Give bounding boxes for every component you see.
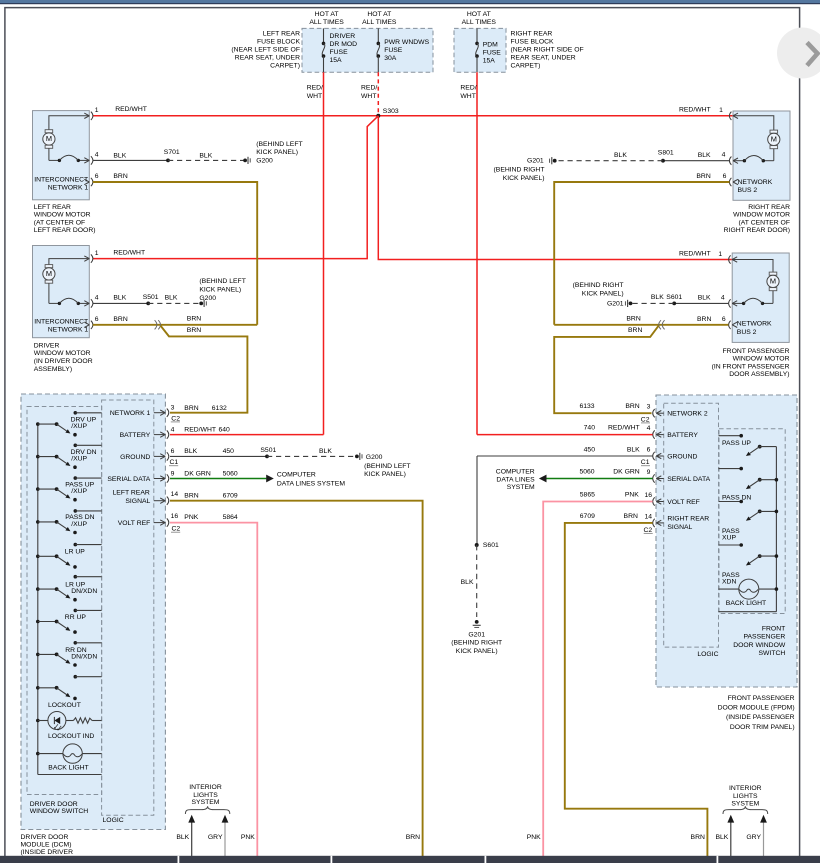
bottom page bar	[0, 856, 820, 863]
svg-text:S601: S601	[666, 294, 682, 301]
svg-text:KICK PANEL): KICK PANEL)	[503, 175, 545, 182]
svg-text:BLK: BLK	[199, 152, 212, 159]
svg-text:3: 3	[647, 404, 651, 411]
svg-text:GROUND: GROUND	[667, 453, 697, 460]
svg-text:BRN: BRN	[625, 403, 639, 410]
svg-text:SERIAL DATA: SERIAL DATA	[667, 476, 710, 483]
svg-text:CARPET): CARPET)	[270, 63, 300, 70]
svg-text:PNK: PNK	[184, 514, 198, 521]
svg-text:NETWORK 1: NETWORK 1	[48, 326, 89, 333]
ground G201 (front passenger motor)	[629, 302, 633, 306]
splice S701	[166, 159, 170, 163]
ground G201 (right rear motor)	[553, 159, 557, 163]
svg-text:C2: C2	[172, 526, 181, 533]
svg-text:WHT: WHT	[361, 93, 376, 100]
svg-text:(BEHIND RIGHT: (BEHIND RIGHT	[451, 640, 502, 647]
svg-text:RIGHT REAR: RIGHT REAR	[748, 204, 790, 211]
motor M right rear	[733, 116, 774, 130]
motor M left rear	[49, 116, 89, 130]
wire GRY to interior lights (right)	[763, 821, 765, 857]
pin 6 right rear motor	[733, 179, 738, 182]
svg-text:BLK: BLK	[165, 294, 178, 301]
svg-text:(INSIDE DRIVER: (INSIDE DRIVER	[21, 849, 74, 856]
svg-text:BLK: BLK	[614, 152, 627, 159]
svg-text:BLK: BLK	[176, 834, 189, 841]
lockout indicator lamp	[36, 719, 40, 723]
fuse F2 PWR WNDWS FUSE 30A	[377, 28, 379, 43]
pin 6 left rear motor	[84, 179, 89, 182]
svg-text:KICK PANEL): KICK PANEL)	[256, 149, 298, 156]
ground G200 (DDM)	[355, 455, 359, 459]
svg-text:450: 450	[223, 448, 235, 455]
svg-text:HOT AT: HOT AT	[315, 11, 339, 18]
svg-text:COMPUTER: COMPUTER	[277, 472, 316, 479]
svg-text:RED/: RED/	[361, 85, 377, 92]
svg-text:RED/WHT: RED/WHT	[113, 250, 145, 257]
svg-text:BLK: BLK	[698, 294, 711, 301]
wire PNK 5864 DDM volt ref	[170, 523, 257, 856]
svg-text:DRIVER: DRIVER	[330, 33, 356, 40]
DDM pin 9 connector	[154, 478, 165, 480]
ground G200 (left rear motor)	[243, 159, 247, 163]
svg-text:BLK: BLK	[651, 294, 664, 301]
pin 1 left rear motor	[84, 113, 89, 116]
svg-text:REAR SEAT, UNDER: REAR SEAT, UNDER	[511, 55, 576, 62]
wire BRN right rear motor pin6 down to passenger splice	[554, 182, 729, 325]
svg-text:15A: 15A	[483, 57, 496, 64]
svg-text:DR MOD: DR MOD	[330, 41, 358, 48]
svg-text:PNK: PNK	[241, 834, 255, 841]
svg-text:LOGIC: LOGIC	[697, 651, 718, 658]
wire BLK right rear motor pin4 to S801	[663, 160, 730, 162]
svg-text:M: M	[46, 134, 52, 143]
svg-text:PASSENGER: PASSENGER	[743, 634, 785, 641]
wire BLK dashed S801 to G201	[559, 160, 664, 162]
svg-text:M: M	[46, 269, 52, 278]
svg-text:WINDOW MOTOR: WINDOW MOTOR	[34, 212, 91, 219]
svg-text:(AT CENTER OF: (AT CENTER OF	[34, 219, 85, 226]
switch PASS UP (FPDM row 1)	[719, 435, 742, 437]
svg-text:BATTERY: BATTERY	[120, 432, 151, 439]
svg-text:(AT CENTER OF: (AT CENTER OF	[739, 219, 790, 226]
svg-text:GRY: GRY	[208, 834, 223, 841]
svg-text:G201: G201	[527, 158, 544, 165]
svg-text:INTERCONNECT: INTERCONNECT	[34, 319, 88, 326]
svg-text:LEFT REAR DOOR): LEFT REAR DOOR)	[34, 227, 96, 234]
pin 1 right rear motor	[733, 113, 738, 116]
svg-text:PASS UP: PASS UP	[722, 440, 751, 447]
svg-text:INTERCONNECT: INTERCONNECT	[34, 177, 88, 184]
svg-text:6709: 6709	[223, 493, 238, 500]
svg-text:XDN: XDN	[722, 579, 736, 586]
svg-text:BACK LIGHT: BACK LIGHT	[726, 600, 766, 607]
svg-text:4: 4	[722, 152, 726, 159]
svg-text:CARPET): CARPET)	[511, 63, 541, 70]
svg-text:4: 4	[95, 152, 99, 159]
svg-text:C2: C2	[643, 527, 652, 534]
wire BLK dashed to G200 (DDM)	[267, 455, 357, 457]
FPDM pin 4 connector	[656, 434, 663, 436]
right rear window motor box	[733, 111, 790, 200]
svg-text:FUSE: FUSE	[483, 49, 502, 56]
svg-text:FUSE BLOCK: FUSE BLOCK	[511, 39, 555, 46]
svg-text:ALL TIMES: ALL TIMES	[309, 19, 344, 26]
svg-text:(BEHIND RIGHT: (BEHIND RIGHT	[494, 166, 545, 173]
svg-text:5865: 5865	[580, 492, 595, 499]
wire BLK front passenger motor pin4 to S601	[674, 302, 728, 304]
wire BRN driver motor pin6 to junction	[93, 324, 257, 326]
switch PASS DN /XUP (DDM row 4)	[36, 520, 40, 524]
svg-text:5864: 5864	[223, 514, 238, 521]
wire BLK left rear motor pin4 to S701	[93, 159, 168, 161]
svg-text:BLK: BLK	[627, 446, 640, 453]
wire RED/WHT fuse F3 output vertical to FPDM battery	[476, 72, 478, 434]
svg-text:DN/XDN: DN/XDN	[71, 654, 97, 661]
DDM pin 16 connector	[154, 522, 165, 524]
svg-text:DOOR ASSEMBLY): DOOR ASSEMBLY)	[729, 371, 789, 378]
wire DK GRN 5060 FPDM serial data	[546, 478, 652, 480]
wire BLK 450 DDM ground to S501	[170, 455, 267, 457]
back light lamp (FPDM)	[739, 579, 759, 599]
splice connector left BRN	[155, 320, 157, 329]
wire RED/WHT fuse F2 output dashed to S303	[377, 72, 379, 114]
svg-text:1: 1	[95, 107, 99, 114]
svg-text:SYSTEM: SYSTEM	[507, 484, 535, 491]
wire BRN branch to FPDM network 2 pin 3	[554, 326, 659, 414]
svg-text:VOLT REF: VOLT REF	[118, 520, 151, 527]
svg-text:C1: C1	[170, 459, 179, 466]
svg-text:WHT: WHT	[307, 93, 322, 100]
svg-text:VOLT REF: VOLT REF	[667, 499, 700, 506]
svg-text:FUSE: FUSE	[330, 49, 349, 56]
svg-text:M: M	[771, 135, 777, 144]
svg-text:S701: S701	[164, 149, 180, 156]
svg-text:1: 1	[719, 107, 723, 114]
FPDM switch bus	[775, 447, 777, 612]
svg-text:SIGNAL: SIGNAL	[125, 498, 150, 505]
svg-text:PWR WNDWS: PWR WNDWS	[384, 39, 429, 46]
svg-text:RIGHT REAR: RIGHT REAR	[667, 515, 709, 522]
svg-text:FUSE BLOCK: FUSE BLOCK	[257, 39, 301, 46]
FPDM pin 3 connector	[656, 412, 663, 414]
svg-text:G201: G201	[607, 300, 624, 307]
svg-text:KICK PANEL): KICK PANEL)	[582, 290, 624, 297]
svg-text:5060: 5060	[579, 468, 594, 475]
svg-text:G200: G200	[256, 157, 273, 164]
svg-text:LIGHTS: LIGHTS	[193, 792, 218, 799]
svg-text:G200: G200	[199, 295, 216, 302]
svg-text:450: 450	[584, 446, 596, 453]
FPDM pin 16 connector	[656, 501, 663, 503]
pin 6 driver motor	[84, 322, 89, 325]
arrow to computer data lines system (right)	[539, 475, 547, 483]
svg-text:9: 9	[171, 470, 175, 477]
svg-text:C2: C2	[641, 416, 650, 423]
svg-text:/XUP: /XUP	[71, 521, 87, 528]
svg-text:BRN: BRN	[696, 173, 710, 180]
svg-text:C1: C1	[641, 459, 650, 466]
motor M front passenger	[732, 260, 773, 273]
svg-text:BRN: BRN	[187, 315, 201, 322]
svg-text:BRN: BRN	[626, 315, 640, 322]
switch DRV UP /XUP (DDM row 1)	[36, 422, 40, 426]
arrow to computer data lines system (left)	[266, 475, 274, 483]
svg-text:6: 6	[171, 448, 175, 455]
svg-text:ALL TIMES: ALL TIMES	[462, 19, 497, 26]
svg-text:(BEHIND RIGHT: (BEHIND RIGHT	[573, 282, 624, 289]
wire PNK 5865 FPDM volt ref	[543, 502, 652, 857]
svg-text:GROUND: GROUND	[120, 454, 150, 461]
svg-text:BRN: BRN	[113, 316, 127, 323]
svg-text:6: 6	[722, 316, 726, 323]
svg-text:BRN: BRN	[624, 513, 638, 520]
splice connector right BRN	[662, 320, 664, 329]
svg-text:BUS 2: BUS 2	[737, 329, 757, 336]
wire BRN front passenger motor pin6 to junction	[554, 324, 728, 326]
svg-text:FRONT PASSENGER: FRONT PASSENGER	[723, 348, 790, 355]
svg-text:BLK: BLK	[319, 448, 332, 455]
DDM pin 14 connector	[154, 500, 165, 502]
svg-text:BRN: BRN	[113, 173, 127, 180]
svg-text:S501: S501	[260, 447, 276, 454]
pin 4 left rear motor	[84, 158, 89, 161]
splice S601 (door)	[672, 302, 676, 306]
svg-text:S303: S303	[383, 108, 399, 115]
svg-text:LR UP: LR UP	[65, 549, 85, 556]
svg-text:6: 6	[647, 446, 651, 453]
svg-text:BLK: BLK	[113, 294, 126, 301]
svg-text:RIGHT REAR DOOR): RIGHT REAR DOOR)	[724, 227, 790, 234]
svg-text:BLK: BLK	[184, 448, 197, 455]
driver window motor box	[33, 246, 90, 338]
wire BLK 450 FPDM ground	[477, 455, 653, 457]
fuse F1 DRIVER DR MOD FUSE 15A	[323, 28, 325, 43]
wire BRN branch to DDM network 1 pin 3	[161, 326, 248, 413]
svg-text:LOGIC: LOGIC	[103, 817, 124, 824]
svg-text:PNK: PNK	[625, 492, 639, 499]
wire RED/WHT top bus left rear motor to right rear motor	[93, 115, 733, 117]
wire BLK to interior lights (left)	[191, 821, 193, 857]
svg-text:DK GRN: DK GRN	[184, 470, 211, 477]
right rear fuse block	[454, 28, 506, 72]
svg-text:RED/WHT: RED/WHT	[679, 107, 711, 114]
svg-text:KICK PANEL): KICK PANEL)	[456, 648, 498, 655]
driver door module (DCM) outer box	[21, 394, 165, 830]
svg-text:/XUP: /XUP	[71, 456, 87, 463]
svg-text:PNK: PNK	[527, 834, 541, 841]
svg-text:/XUP: /XUP	[71, 488, 87, 495]
svg-text:740: 740	[584, 424, 596, 431]
svg-text:FUSE: FUSE	[384, 47, 403, 54]
switch LR UP (DDM row 5)	[36, 555, 40, 559]
svg-text:DRIVER: DRIVER	[34, 342, 60, 349]
wire BRN 6709 FPDM right rear signal	[565, 523, 708, 856]
switch RR UP (DDM row 7)	[36, 620, 40, 624]
svg-text:LEFT REAR: LEFT REAR	[34, 204, 71, 211]
splice S801	[661, 159, 665, 163]
svg-text:BLK: BLK	[113, 152, 126, 159]
brace (right interior lights)	[723, 806, 768, 814]
left rear fuse block	[302, 28, 433, 72]
svg-text:16: 16	[645, 492, 653, 499]
pin 6 front passenger motor	[732, 322, 737, 325]
svg-text:BLK: BLK	[461, 579, 474, 586]
svg-text:LOCKOUT: LOCKOUT	[48, 702, 81, 709]
svg-text:6709: 6709	[580, 513, 595, 520]
svg-text:DOOR TRIM PANEL): DOOR TRIM PANEL)	[730, 724, 795, 731]
DDM logic box	[102, 400, 154, 815]
wire BLK dashed S701 to G200	[168, 159, 245, 161]
svg-text:C2: C2	[171, 415, 180, 422]
svg-text:(BEHIND LEFT: (BEHIND LEFT	[256, 141, 302, 148]
FPDM pin 9 connector	[656, 478, 663, 480]
pin 4 right rear motor	[733, 158, 738, 161]
svg-text:4: 4	[647, 425, 651, 432]
svg-text:SWITCH: SWITCH	[758, 650, 785, 657]
svg-text:BRN: BRN	[184, 493, 198, 500]
svg-text:S501: S501	[143, 294, 159, 301]
switch PASS XUP (FPDM row 3)	[719, 501, 742, 503]
svg-text:640: 640	[219, 426, 231, 433]
wire BLK dashed S601 to G201	[633, 302, 675, 304]
svg-text:BRN: BRN	[406, 834, 420, 841]
FPDM logic box	[664, 403, 719, 647]
svg-text:(NEAR LEFT SIDE OF: (NEAR LEFT SIDE OF	[231, 47, 300, 54]
front passenger door module (FPDM) outer box	[656, 395, 797, 687]
wire BLK dashed S501 to G200	[148, 302, 201, 304]
fuse F3 PDM FUSE 15A	[476, 28, 478, 43]
svg-text:LOCKOUT IND: LOCKOUT IND	[48, 733, 94, 740]
wire RED/WHT 740 FPDM battery	[477, 434, 653, 436]
motor M driver	[49, 259, 89, 265]
svg-text:9: 9	[647, 469, 651, 476]
svg-text:PDM: PDM	[483, 41, 498, 48]
svg-text:(BEHIND LEFT: (BEHIND LEFT	[199, 278, 245, 285]
svg-text:(IN DRIVER DOOR: (IN DRIVER DOOR	[34, 358, 93, 365]
svg-text:KICK PANEL): KICK PANEL)	[364, 471, 406, 478]
svg-text:LIGHTS: LIGHTS	[733, 793, 758, 800]
svg-text:4: 4	[95, 295, 99, 302]
svg-text:G200: G200	[366, 454, 383, 461]
svg-text:NETWORK: NETWORK	[737, 320, 772, 327]
wire RED/WHT S303 branch to front passenger motor	[378, 116, 732, 260]
svg-text:LEFT REAR: LEFT REAR	[263, 31, 300, 38]
wire GRY to interior lights (left)	[224, 821, 226, 857]
svg-text:DRIVER DOOR: DRIVER DOOR	[30, 801, 78, 808]
wire BLK dashed S601 down to G201	[476, 545, 478, 617]
svg-text:RED/WHT: RED/WHT	[115, 106, 147, 113]
front passenger window motor box	[732, 253, 789, 342]
svg-text:/XUP: /XUP	[71, 423, 87, 430]
svg-text:WINDOW MOTOR: WINDOW MOTOR	[34, 350, 91, 357]
svg-text:RR UP: RR UP	[65, 614, 87, 621]
svg-text:(INSIDE PASSENGER: (INSIDE PASSENGER	[726, 714, 795, 721]
svg-text:RED/WHT: RED/WHT	[608, 424, 640, 431]
wire RED/WHT 640 DDM battery	[170, 434, 324, 436]
switch RR DN DN/XDN (DDM row 8)	[36, 653, 40, 657]
wire BRN left rear motor pin6 down to driver door splice	[93, 182, 257, 325]
splice S601	[475, 543, 479, 547]
svg-text:FRONT: FRONT	[762, 626, 785, 633]
svg-text:3: 3	[171, 405, 175, 412]
DDM pin 6 connector	[154, 455, 165, 457]
svg-text:KICK PANEL): KICK PANEL)	[199, 287, 241, 294]
svg-text:INTERIOR: INTERIOR	[189, 784, 222, 791]
switch PASS XDN (FPDM row 4)	[719, 544, 742, 546]
next page chevron button	[777, 28, 820, 79]
wire BLK FPDM ground down to S601	[476, 456, 478, 545]
FPDM pin 6 connector	[656, 455, 663, 457]
svg-text:BATTERY: BATTERY	[667, 432, 698, 439]
svg-text:SIGNAL: SIGNAL	[667, 524, 692, 531]
svg-text:REAR SEAT, UNDER: REAR SEAT, UNDER	[235, 55, 300, 62]
svg-text:1: 1	[95, 250, 99, 257]
DDM switch bus	[37, 424, 39, 774]
brace (left interior lights)	[185, 806, 229, 814]
wire BRN 6709 DDM left rear signal	[170, 501, 423, 856]
svg-text:RED/: RED/	[307, 85, 323, 92]
svg-text:30A: 30A	[384, 55, 397, 62]
DDM pin 4 connector	[154, 434, 165, 436]
svg-text:BACK LIGHT: BACK LIGHT	[48, 765, 88, 772]
wire RED/WHT S303 branch to driver window motor	[93, 116, 379, 259]
svg-text:ASSEMBLY): ASSEMBLY)	[34, 366, 72, 373]
svg-text:WINDOW MOTOR: WINDOW MOTOR	[733, 356, 790, 363]
svg-text:BUS 2: BUS 2	[738, 187, 758, 194]
svg-text:BRN: BRN	[184, 405, 198, 412]
pin 1 driver motor	[84, 256, 89, 259]
svg-text:BRN: BRN	[691, 834, 705, 841]
svg-text:15A: 15A	[330, 57, 343, 64]
splice S501	[146, 302, 150, 306]
svg-text:BRN: BRN	[628, 327, 642, 334]
svg-text:BLK: BLK	[715, 834, 728, 841]
svg-text:M: M	[770, 277, 776, 286]
svg-text:14: 14	[171, 491, 179, 498]
svg-text:XUP: XUP	[722, 534, 736, 541]
svg-text:PASS DN: PASS DN	[722, 494, 751, 501]
switch LR UP DN/XDN (DDM row 6)	[36, 587, 40, 591]
svg-text:(IN FRONT PASSENGER: (IN FRONT PASSENGER	[712, 363, 790, 370]
front passenger door window switch inner box	[719, 429, 785, 614]
svg-text:RED/: RED/	[460, 85, 476, 92]
back light lamp (DDM)	[36, 752, 40, 756]
ground G201 (center)	[475, 620, 479, 624]
svg-text:NETWORK 2: NETWORK 2	[667, 411, 708, 418]
svg-text:DOOR WINDOW: DOOR WINDOW	[733, 642, 786, 649]
svg-text:6133: 6133	[579, 403, 594, 410]
svg-text:DK GRN: DK GRN	[613, 468, 640, 475]
svg-text:WHT: WHT	[460, 93, 475, 100]
svg-text:4: 4	[721, 295, 725, 302]
svg-text:DRIVER DOOR: DRIVER DOOR	[21, 834, 69, 841]
switch DRV DN /XUP (DDM row 2)	[36, 455, 40, 459]
svg-text:INTERIOR: INTERIOR	[729, 785, 762, 792]
switch PASS DN (FPDM row 2)	[719, 468, 742, 470]
svg-text:WINDOW MOTOR: WINDOW MOTOR	[733, 212, 790, 219]
wire BLK to interior lights (right)	[730, 821, 732, 857]
svg-text:RED/WHT: RED/WHT	[184, 426, 216, 433]
svg-text:RED/WHT: RED/WHT	[679, 251, 711, 258]
svg-text:DN/XDN: DN/XDN	[71, 588, 97, 595]
lockout indicator resistor	[66, 720, 74, 722]
svg-text:BLK: BLK	[698, 152, 711, 159]
svg-text:NETWORK 1: NETWORK 1	[110, 410, 151, 417]
svg-text:G201: G201	[468, 632, 485, 639]
svg-text:RIGHT REAR: RIGHT REAR	[511, 31, 553, 38]
svg-text:1: 1	[718, 251, 722, 258]
svg-text:6: 6	[723, 173, 727, 180]
